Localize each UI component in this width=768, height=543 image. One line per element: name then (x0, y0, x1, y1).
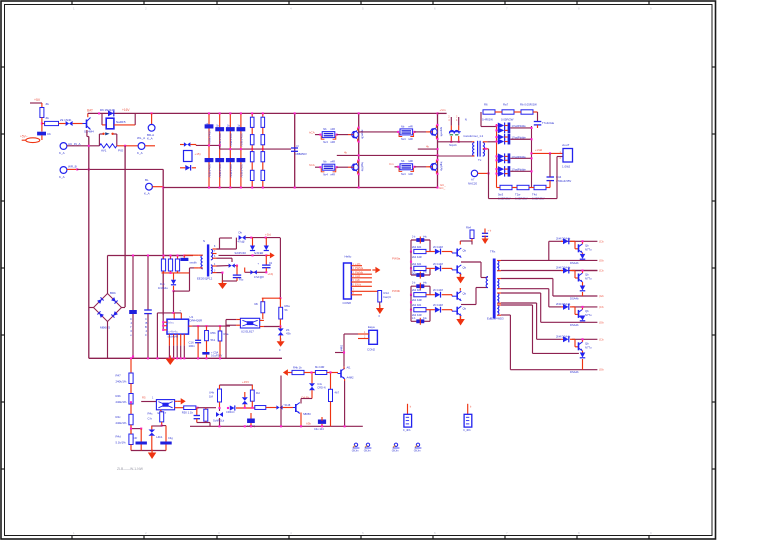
wire (217, 272, 223, 274)
fuse F1 loop (98, 134, 100, 146)
wire bottom bus (163, 187, 437, 189)
svg-text:+Vdd: +Vdd (535, 148, 542, 152)
svg-text:D6 1N4148: D6 1N4148 (100, 108, 115, 112)
svg-text:Rb4: Rb4 (466, 226, 471, 230)
svg-text:5b: 5b (285, 308, 289, 312)
wire vert (294, 113, 296, 187)
wire base branch (330, 372, 332, 389)
wire (582, 321, 584, 323)
connector BD1 (148, 124, 155, 131)
svg-text:43b: 43b (286, 332, 291, 336)
svg-text:N: N (465, 118, 467, 122)
svg-text:b4u: b4u (423, 237, 428, 239)
diode DG3 (435, 292, 440, 298)
wire (152, 186, 163, 188)
wire (217, 248, 237, 250)
svg-text:CON8: CON8 (343, 301, 352, 305)
diode ZR1 (184, 142, 187, 147)
svg-text:R4b: R4b (116, 394, 122, 398)
dual diode bar 3 (508, 153, 511, 163)
svg-text:330uF450V: 330uF450V (229, 133, 233, 147)
svg-text:C4x: C4x (317, 382, 322, 386)
resistor stack (322, 132, 335, 138)
capacitor CB3a (226, 127, 235, 131)
CON8 pin 7 (351, 290, 379, 292)
svg-text:1b: 1b (216, 124, 219, 127)
svg-text:17wdPddde: 17wdPddde (512, 168, 527, 172)
wire pin8 row (501, 314, 510, 316)
svg-text:PW0a: PW0a (392, 257, 401, 261)
wire (582, 351, 584, 353)
svg-text:4b: 4b (426, 144, 429, 148)
rect diode row y169.1 (497, 168, 498, 170)
svg-text:L4b1: L4b1 (156, 435, 163, 439)
top zone tick 2 (143, 1, 145, 5)
wire (582, 241, 584, 244)
svg-text:0: 0 (279, 349, 281, 352)
out ch4 top wire (572, 338, 598, 340)
svg-text:BAT: BAT (87, 108, 93, 112)
wire (244, 404, 246, 408)
svg-text:Nv4: Nv4 (401, 172, 406, 176)
choke T1 coil (450, 131, 460, 134)
svg-text:n4R: n4R (330, 160, 335, 164)
wire (217, 257, 233, 259)
svg-text:R4c: R4c (116, 415, 122, 419)
wire pin2 row (501, 270, 597, 272)
node a4 (124, 145, 126, 147)
capacitor CG3 (416, 284, 424, 288)
wire (582, 316, 584, 319)
wire c4 top feed (537, 338, 561, 340)
node a2 (98, 112, 100, 114)
svg-text:240k/1%: 240k/1% (116, 380, 127, 384)
wire (198, 407, 217, 409)
diode DB4 (250, 270, 253, 275)
out ch4 transistor (578, 342, 580, 350)
right zone tick 2 (712, 133, 716, 135)
wire (315, 166, 320, 168)
svg-text:U2 EL817: U2 EL817 (241, 330, 254, 334)
capacitor CM3 (318, 420, 326, 424)
wire trx1 (461, 261, 481, 263)
res col2 wire (262, 113, 264, 187)
snubber cap (180, 258, 188, 261)
svg-text:(Cb: (Cb (599, 269, 604, 273)
svg-text:(Cb: (Cb (599, 239, 604, 243)
TRx left winding (486, 277, 488, 288)
wire (426, 251, 435, 253)
wire (190, 144, 196, 146)
out ch4 diode (563, 336, 569, 342)
svg-text:8: 8 (578, 531, 580, 535)
wire (497, 187, 501, 189)
right zone tick 4 (712, 267, 716, 269)
node m2 (310, 371, 312, 373)
bottom zone tick 9 (648, 536, 650, 540)
wire (283, 407, 293, 409)
top zone tick 4 (288, 1, 290, 5)
svg-text:Qb: Qb (463, 307, 467, 311)
wire (582, 282, 584, 286)
svg-text:3: 3 (218, 531, 220, 535)
svg-text:330uF450V: 330uF450V (229, 164, 233, 178)
svg-text:R5b: R5b (211, 331, 217, 335)
svg-text:2kb b0b: 2kb b0b (412, 288, 422, 292)
diode D1 (66, 121, 70, 126)
cap bank col3 wire (229, 113, 231, 187)
node m1 (218, 407, 220, 409)
resistor RM7 (315, 371, 326, 375)
svg-text:C4f: C4f (133, 436, 137, 440)
wire vert to U1 pins (162, 315, 164, 331)
resistor stack (322, 164, 335, 170)
svg-text:Qb: Qb (585, 309, 589, 313)
svg-text:CBB450V: CBB450V (295, 152, 307, 156)
capacitor CGT (482, 232, 488, 234)
wire (130, 425, 132, 434)
capacitor CB1a (205, 124, 214, 128)
TRx pins 3 (497, 292, 501, 294)
svg-text:Fdu: Fdu (239, 279, 244, 282)
top zone tick 7 (504, 1, 506, 5)
svg-text:R4b 1b: R4b 1b (293, 365, 302, 369)
wire (151, 425, 161, 427)
wire c4 bottom (510, 369, 597, 371)
wire (582, 292, 584, 296)
resistor RT2 (502, 110, 514, 114)
top zone tick 8 (576, 1, 578, 5)
wire (327, 372, 338, 374)
wire (141, 401, 156, 403)
wire vert (124, 146, 126, 307)
wire (130, 358, 132, 373)
resistor RT1 (483, 110, 495, 114)
TRx pins 4 (497, 304, 501, 306)
node a6 (88, 168, 90, 170)
svg-text:hqp6Ab: hqp6Ab (440, 162, 444, 172)
resistor RT3 (521, 110, 533, 114)
transistor hqp6Ab (431, 163, 433, 170)
svg-text:Nb: Nb (401, 159, 405, 163)
capacitor C44 (547, 176, 555, 178)
wire (107, 322, 109, 359)
wire pin1 row (501, 259, 597, 261)
svg-text:BDb: BDb (110, 291, 116, 295)
transistor Q1 (86, 120, 88, 129)
svg-text:GC_: GC_ (440, 183, 446, 187)
wire (582, 253, 584, 254)
svg-text:3: 3 (218, 7, 220, 11)
resistor RM4 (250, 390, 254, 401)
svg-text:2-b: 2-b (412, 283, 416, 285)
wire out 3 (510, 157, 531, 159)
resistor RB13 (250, 152, 254, 162)
svg-text:B: B (145, 325, 147, 329)
bottom zone tick 4 (288, 536, 290, 540)
svg-text:2kb b4R: 2kb b4R (412, 313, 422, 317)
wire U1 top loop (157, 312, 181, 314)
svg-text:9: 9 (650, 531, 652, 535)
svg-text:K_A: K_A (59, 151, 65, 155)
svg-text:Nb: Nb (323, 160, 327, 164)
connector RR_B (60, 167, 67, 174)
ground arrow g2 (460, 316, 462, 319)
snubber R3 (177, 256, 179, 260)
wire c1 (459, 241, 461, 245)
svg-text:+1b): +1b) (268, 272, 274, 276)
right zone tick 5 (712, 334, 716, 336)
svg-text:Qb: Qb (585, 341, 589, 345)
resistor R2 (45, 121, 59, 125)
svg-text:R5: R5 (142, 396, 146, 400)
wire (379, 302, 381, 308)
wire (22, 139, 26, 141)
wire (266, 407, 277, 409)
capacitor CB4a (237, 127, 246, 131)
svg-text:5: 5 (362, 7, 364, 11)
wire mid (337, 154, 438, 156)
wire (480, 112, 482, 127)
svg-text:4700uF/35V: 4700uF/35V (556, 179, 571, 183)
wire return loop (488, 149, 490, 199)
svg-text:2N 4148: 2N 4148 (433, 245, 443, 249)
diode ZR3 (185, 165, 190, 171)
wire (217, 248, 220, 250)
U1 right pin (189, 325, 193, 327)
wire pin3 row (501, 278, 553, 280)
svg-text:C: C (130, 317, 132, 321)
wire (114, 124, 135, 126)
svg-text:WR_B: WR_B (68, 165, 77, 169)
CON8 pin 2 (351, 269, 371, 271)
wire (426, 309, 435, 311)
svg-text:DSA4b: DSA4b (570, 297, 579, 301)
wire (291, 372, 292, 374)
svg-text:R50 1.1b: R50 1.1b (182, 411, 194, 415)
logo glyph 3 (394, 443, 397, 446)
wire (30, 102, 42, 104)
logo glyph 2 (366, 443, 369, 446)
svg-text:+ b: + b (488, 229, 492, 233)
transistor QM1 (295, 404, 297, 412)
diode DM1 (216, 412, 220, 417)
svg-text:Rb 0.05R/2W: Rb 0.05R/2W (520, 103, 537, 107)
capacitor CB4b (237, 158, 246, 162)
svg-text:(Gb: (Gb (599, 294, 604, 298)
out ch3 diode (563, 304, 569, 310)
svg-text:K_A: K_A (147, 137, 153, 141)
svg-text:CRD-N: CRD-N (317, 386, 325, 390)
left zone tick 5 (1, 334, 5, 336)
svg-text:SA4M4: SA4M4 (84, 130, 94, 134)
svg-text:smdfv: smdfv (190, 261, 198, 265)
svg-text:Nb: Nb (401, 124, 405, 128)
svg-text:WL_A: WL_A (137, 136, 145, 140)
svg-text:SchRGLb: SchRGLb (213, 419, 225, 423)
capacitor CE2 (147, 256, 149, 311)
ground arrow L (151, 450, 153, 453)
svg-text:PWMa: PWMa (355, 266, 364, 270)
out ch1 base (574, 241, 576, 249)
wire +V out (532, 152, 564, 154)
transistor apqm3h (353, 131, 355, 138)
zener ZD431 (278, 328, 284, 332)
svg-text:4: 4 (290, 7, 292, 11)
svg-text:K_A: K_A (59, 175, 65, 179)
out ch3 diode2 (580, 316, 586, 321)
resistor RGT (470, 230, 474, 239)
TRx right winding 1 (497, 261, 499, 271)
diode D6 (108, 110, 114, 116)
capacitor CG1 (416, 238, 424, 242)
optocoupler U2 (240, 318, 259, 328)
svg-text:GNJm: GNJm (414, 450, 421, 453)
transistor apqm4h (431, 128, 433, 135)
wire Tx bottom-left (437, 155, 474, 157)
ground arrow (222, 280, 224, 283)
capacitor CB2a (215, 127, 224, 131)
svg-text:4: 4 (456, 119, 458, 122)
svg-text:BL: BL (145, 178, 149, 182)
svg-text:GNJm: GNJm (352, 450, 359, 453)
svg-text:2: 2 (145, 7, 147, 11)
capacitor CM2 (247, 419, 255, 424)
svg-text:4: 4 (146, 329, 148, 333)
svg-text:C2A: C2A (355, 274, 360, 278)
svg-text:hqp5Ab: hqp5Ab (361, 162, 365, 172)
wire mid bus ext (163, 255, 184, 257)
dual diode bar 2 (508, 134, 511, 145)
connector VOUT1 (563, 149, 573, 163)
zener DM3 (242, 397, 248, 401)
svg-text:0: 0 (379, 315, 381, 318)
wire (130, 425, 132, 435)
wire (438, 141, 473, 143)
svg-text:N: N (297, 144, 299, 148)
wire out 2 (510, 138, 531, 140)
svg-text:C: C (145, 317, 147, 321)
svg-text:n4R: n4R (408, 137, 413, 141)
svg-text:0.4R/2W: 0.4R/2W (482, 118, 493, 122)
svg-text:Qb: Qb (463, 249, 467, 253)
svg-text:C2b: C2b (355, 278, 360, 282)
diode DG1 (435, 249, 440, 255)
svg-text:n4R: n4R (330, 140, 335, 144)
resistor RL3 (129, 414, 133, 425)
transformer Tx left winding (473, 143, 475, 157)
svg-text:4: 4 (131, 321, 133, 325)
svg-text:Rb: Rb (255, 302, 259, 306)
wire trx2 (461, 304, 476, 306)
cap bank col4 wire (240, 113, 242, 187)
connector NC2B (471, 170, 477, 176)
svg-text:N7Tu: N7Tu (585, 345, 592, 349)
svg-text:Af1: Af1 (347, 366, 352, 370)
bridge diode SW (97, 311, 104, 318)
wire bank crossA (196, 144, 220, 146)
resistor RL4 (129, 434, 133, 445)
ch1 loop (410, 240, 412, 252)
wire pin6 row (501, 302, 537, 304)
svg-text:DSA4b: DSA4b (570, 261, 579, 265)
svg-text:2N4 DSA4b: 2N4 DSA4b (556, 334, 571, 338)
svg-text:+5V~: +5V~ (20, 135, 28, 139)
svg-text:N7Tu: N7Tu (585, 277, 592, 281)
out ch2 top wire (572, 270, 598, 272)
svg-text:apqm3h: apqm3h (361, 130, 365, 140)
svg-text:Qb: Qb (585, 273, 589, 277)
wire (344, 333, 358, 335)
wire Tx top-right (483, 141, 488, 143)
node l1 (130, 401, 132, 403)
wire pair1 (410, 252, 412, 269)
wire top15 (220, 384, 253, 386)
svg-text:B: B (146, 321, 148, 325)
svg-text:2: 2 (145, 531, 147, 535)
svg-text:4: 4 (290, 531, 292, 535)
svg-text:CON2: CON2 (367, 348, 375, 352)
choke T1 out (450, 136, 452, 142)
wire mid bus (108, 255, 194, 257)
wire vert (162, 169, 164, 315)
svg-text:4b: 4b (344, 151, 347, 155)
diode DM4 (276, 405, 279, 409)
wire collector (343, 367, 345, 370)
svg-text:apqm4h: apqm4h (440, 127, 444, 137)
capacitor CT1 (534, 121, 542, 123)
wire (173, 291, 175, 313)
svg-text:0.05R/2W: 0.05R/2W (501, 118, 514, 122)
resistor stack (400, 129, 413, 135)
capacitor CB3b (226, 158, 235, 162)
top zone tick 3 (216, 1, 218, 5)
wire (175, 400, 178, 402)
svg-text:+Vin: +Vin (440, 108, 446, 112)
ch2 loop (410, 268, 412, 275)
bridge diode NE (111, 297, 118, 304)
wire (161, 422, 163, 426)
wire (180, 167, 185, 169)
optocoupler U5 (156, 400, 174, 410)
wire (101, 113, 103, 125)
left zone tick 6 (1, 401, 5, 403)
svg-text:17wdPddde: 17wdPddde (512, 155, 527, 159)
svg-text:Rd: Rd (256, 391, 260, 395)
wire (236, 407, 259, 409)
capacitor C5A (202, 352, 209, 355)
diode DM2 (230, 405, 235, 410)
CON8 pin 4 (351, 277, 372, 279)
ch4 loop (410, 310, 412, 322)
wire chain bottom (131, 428, 141, 430)
wire (262, 297, 281, 299)
resistor R5A dummy (219, 326, 221, 331)
diode DG2 (435, 266, 440, 272)
wire (130, 384, 132, 394)
TRx pins 1 (497, 260, 501, 262)
U1 top pins (173, 313, 175, 319)
wire vert (88, 137, 90, 308)
capacitor CL1 (140, 429, 142, 442)
wire (67, 168, 77, 170)
transformer T2 right winding2 (211, 265, 212, 273)
svg-text:CRD-N: CRD-N (226, 410, 234, 414)
wire bottom loop (131, 450, 166, 452)
svg-text:NaRF5: NaRF5 (116, 120, 126, 124)
svg-text:100n: 100n (189, 344, 196, 348)
resistor RM6 (292, 370, 304, 374)
